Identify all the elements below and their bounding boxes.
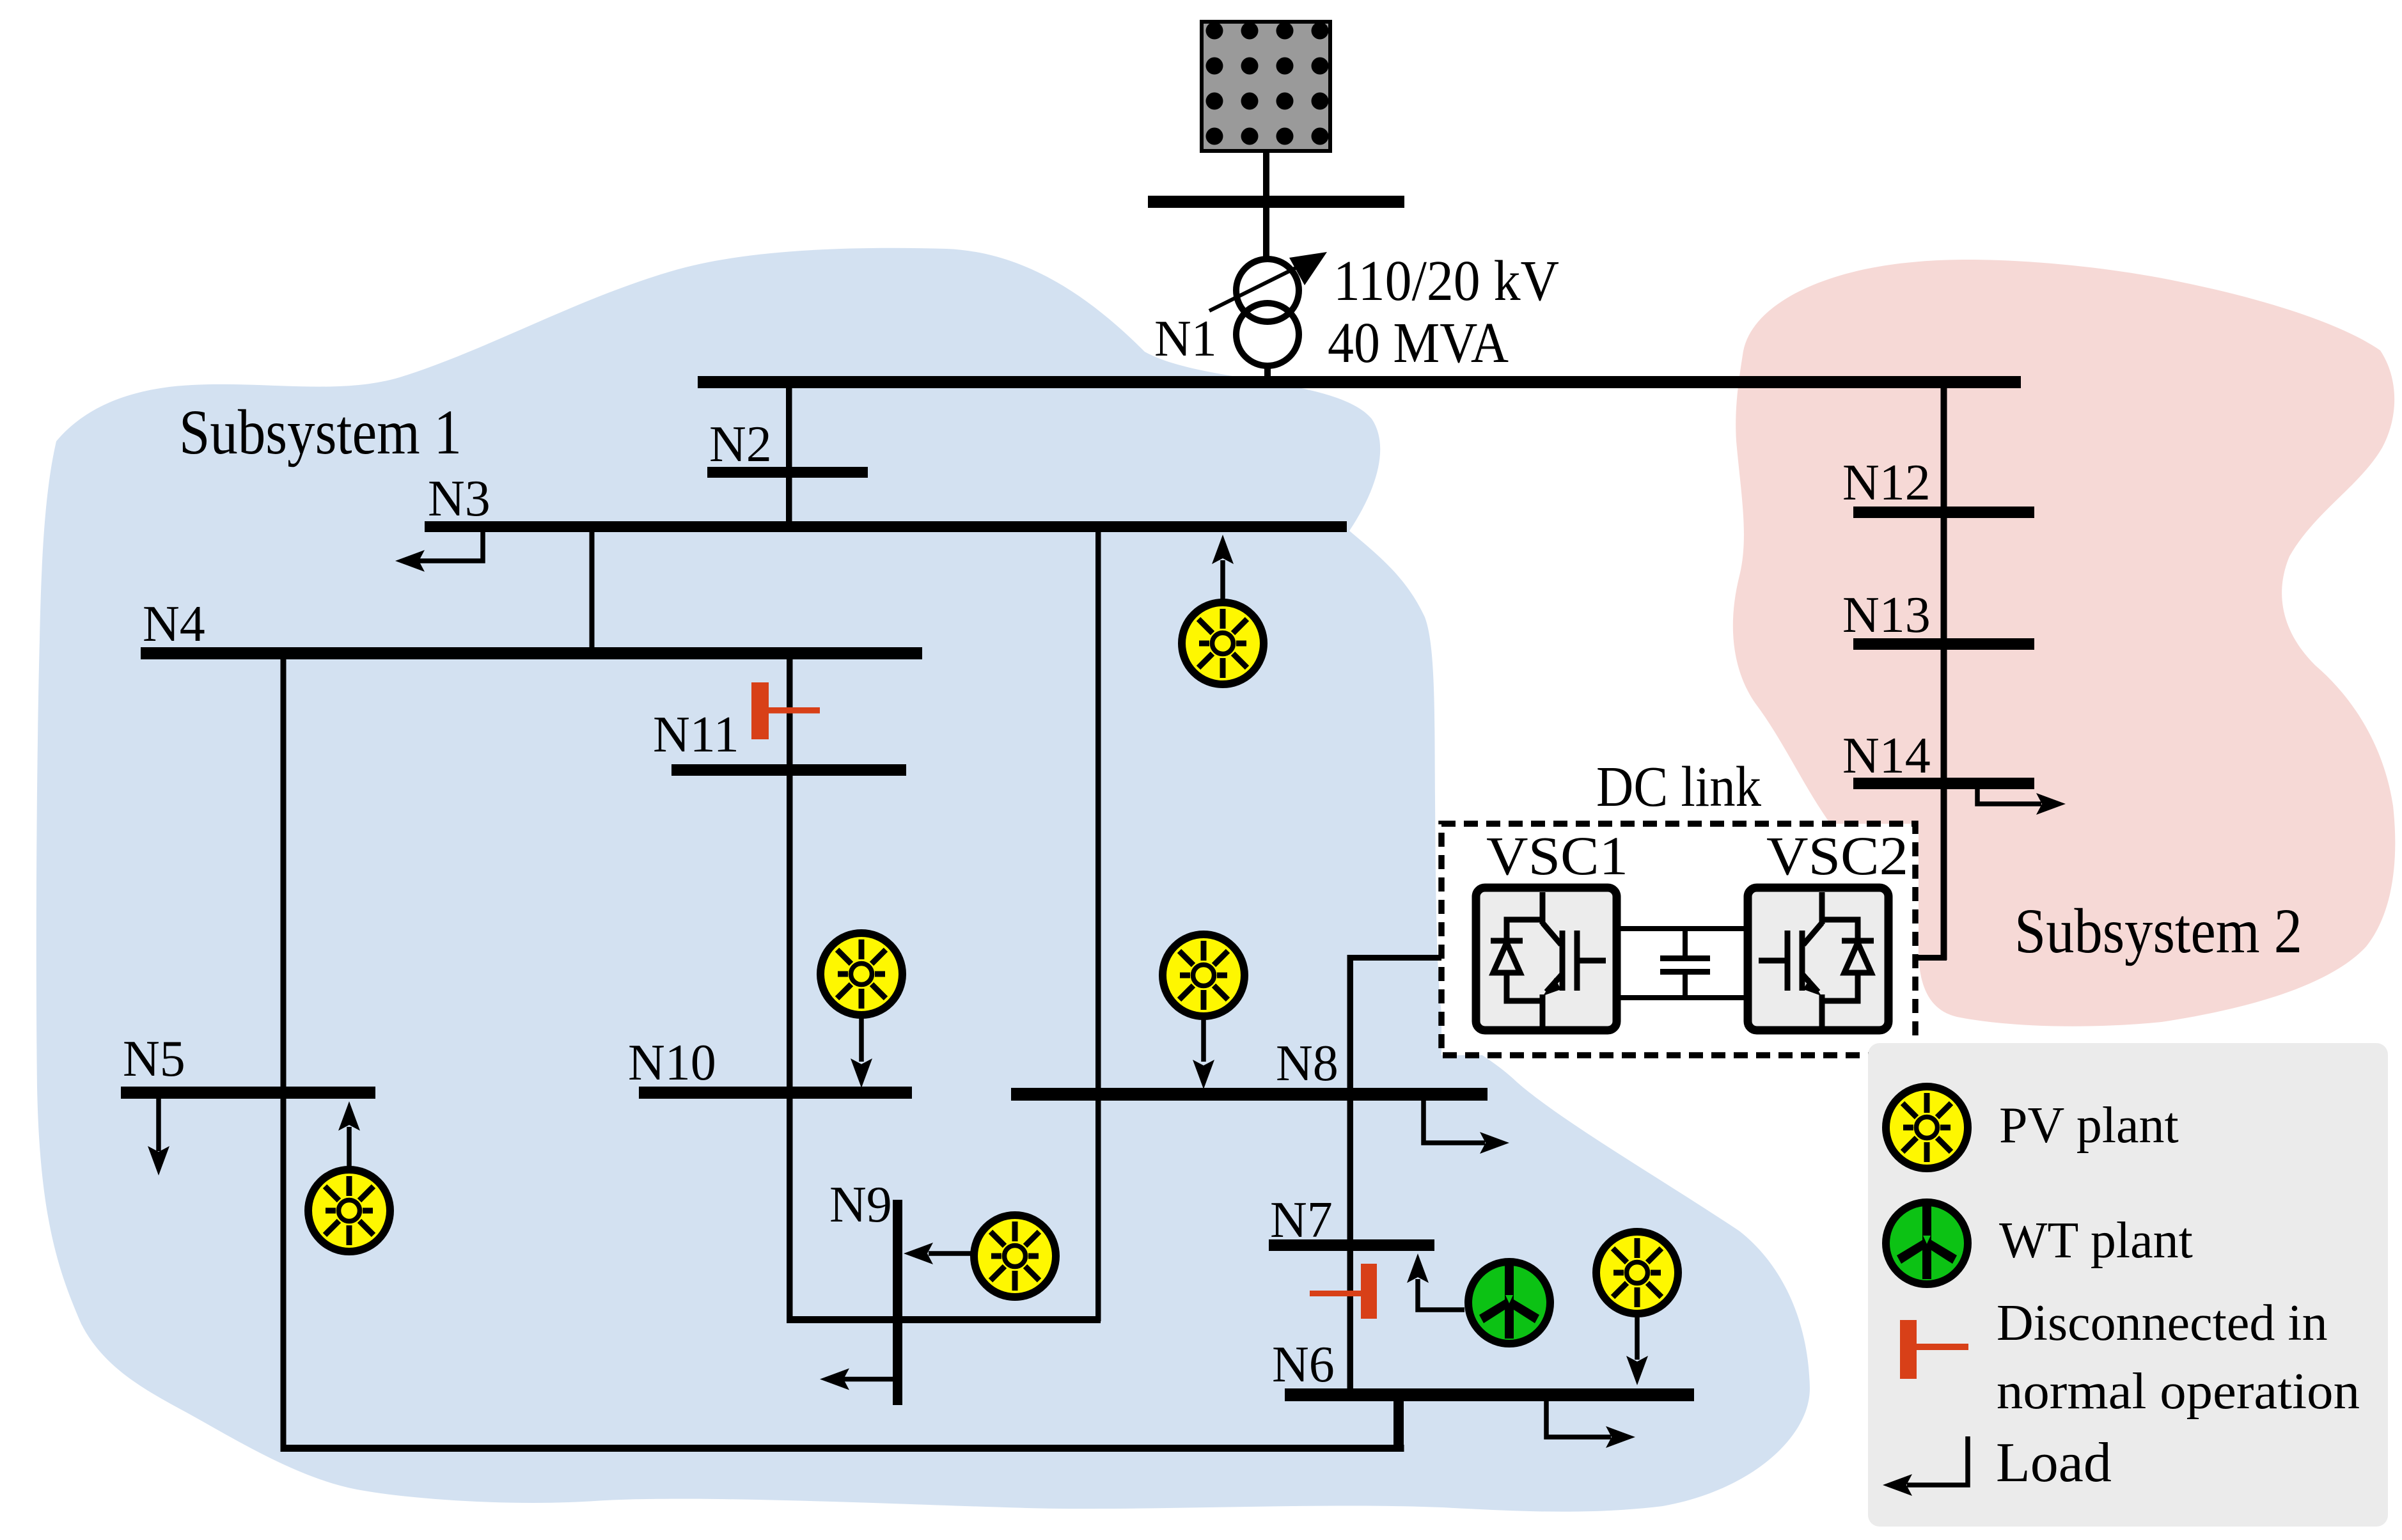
wire N1 to N12 chain (1941, 388, 1947, 960)
svg-text:N4: N4 (143, 596, 205, 652)
svg-text:N1: N1 (1154, 311, 1217, 367)
PV plant at N9 (904, 1215, 1056, 1297)
PV plant at N8 (1163, 934, 1244, 1089)
Subsystem 2 region blob (1733, 260, 2396, 1026)
bus N3 (425, 521, 1347, 532)
Subsystem 1 region blob (36, 248, 1810, 1512)
legend box (1868, 1043, 2388, 1527)
svg-text:N13: N13 (1842, 587, 1931, 643)
transformer tap arrow (1209, 252, 1327, 311)
svg-text:WT plant: WT plant (1999, 1213, 2193, 1269)
bus N13 (1853, 638, 2034, 650)
svg-text:N3: N3 (428, 471, 491, 527)
load at N8 (1424, 1101, 1509, 1154)
svg-text:Disconnected in: Disconnected in (1997, 1295, 2328, 1351)
wire N4 down through N5 to bottom (281, 659, 287, 1452)
disconnect switch at N11 (red) (751, 682, 820, 739)
svg-text:Load: Load (1996, 1432, 2112, 1494)
svg-text:N9: N9 (829, 1177, 892, 1233)
bus N8 (1011, 1088, 1488, 1101)
wire N4 to N11 to N10 to corner (787, 659, 793, 1320)
svg-text:N14: N14 (1842, 728, 1931, 784)
svg-text:110/20 kV: 110/20 kV (1333, 249, 1559, 313)
legend WT icon (1886, 1202, 1968, 1284)
svg-text:VSC2: VSC2 (1766, 825, 1908, 886)
wire VSC2 AC connection (1892, 955, 1947, 961)
DC wires between converters (1617, 926, 1751, 931)
wire corner horizontal to N9 (787, 1316, 1101, 1323)
wire N3 to N4 (590, 531, 595, 648)
legend disconnect symbol (1900, 1320, 1968, 1379)
converter VSC1 (1476, 888, 1617, 1030)
svg-text:normal operation: normal operation (1997, 1363, 2360, 1420)
transformer T1 (110/20 kV) (1236, 259, 1299, 366)
PV plant at N5 (308, 1101, 390, 1252)
bus N7 (1269, 1239, 1434, 1251)
svg-text:PV plant: PV plant (1999, 1097, 2179, 1154)
DC link capacitor (1660, 929, 1710, 998)
wire N1 to N2 to N3 (786, 388, 792, 522)
external grid symbol (1202, 22, 1330, 151)
legend load symbol (1883, 1436, 1968, 1496)
svg-text:N6: N6 (1272, 1337, 1335, 1393)
svg-text:40 MVA: 40 MVA (1328, 311, 1509, 375)
wire VSC1 AC connection (1347, 955, 1354, 1392)
svg-text:N8: N8 (1276, 1035, 1338, 1092)
bus N2 (707, 467, 868, 478)
wire transformer to N1 bus (1264, 365, 1271, 384)
PV plant at N6 (1596, 1232, 1678, 1385)
bottom long wire to N6 (281, 1445, 1404, 1452)
svg-text:DC link: DC link (1596, 755, 1761, 819)
load at N9 (820, 1369, 897, 1390)
svg-text:VSC1: VSC1 (1486, 825, 1628, 886)
load at N3 (395, 531, 483, 572)
WT plant at N7 (1407, 1253, 1550, 1344)
converter VSC2 (1748, 888, 1888, 1030)
wire N3 down to N9 corner (1095, 531, 1101, 1321)
load at N5 (148, 1099, 169, 1175)
legend PV icon (1886, 1087, 1968, 1168)
bus N4 (141, 647, 922, 659)
110 kV bus (1148, 196, 1404, 208)
bus N12 (1853, 507, 2034, 518)
disconnect switch at N7 (red) (1310, 1264, 1377, 1319)
wire up to N6 bus (1393, 1401, 1404, 1448)
svg-text:N7: N7 (1270, 1192, 1333, 1248)
load at N6 (1546, 1401, 1635, 1448)
svg-text:Subsystem 2: Subsystem 2 (2014, 895, 2302, 966)
bus N10 (639, 1087, 912, 1099)
svg-text:N2: N2 (709, 416, 772, 473)
PV plant at N10 (820, 933, 902, 1088)
svg-text:N11: N11 (653, 707, 739, 763)
load at N14 (1977, 789, 2066, 815)
DC link dashed box (1441, 824, 1915, 1055)
svg-text:N10: N10 (628, 1035, 716, 1091)
bus N5 (121, 1087, 375, 1099)
PV plant at N3 (1182, 535, 1264, 684)
svg-text:Subsystem 1: Subsystem 1 (179, 397, 462, 467)
svg-text:N12: N12 (1842, 455, 1931, 511)
svg-text:N5: N5 (123, 1031, 185, 1087)
wire grid to 110kV bus (1263, 151, 1269, 198)
bus N14 (1853, 778, 2034, 789)
bus N9 (vertical) (893, 1200, 902, 1405)
bus N11 (671, 764, 906, 776)
bus N6 (1285, 1388, 1694, 1401)
bus N1 (20 kV main) (698, 376, 2021, 388)
wire bus to transformer (1263, 208, 1269, 258)
